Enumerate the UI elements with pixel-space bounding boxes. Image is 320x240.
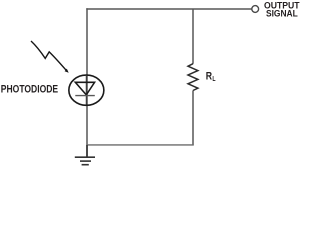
photodiode D1 cathode bar	[75, 95, 95, 97]
light arrow head	[65, 69, 69, 73]
light arrow into photodiode	[31, 41, 66, 70]
svg-text:SIGNAL: SIGNAL	[266, 9, 298, 19]
svg-text:PHOTODIODE: PHOTODIODE	[1, 84, 58, 96]
node junction at top of resistor branch	[192, 9, 194, 64]
wire left vertical (photodiode branch)	[86, 8, 88, 156]
wire bottom horizontal	[86, 144, 193, 146]
ground stub	[86, 145, 88, 157]
svg-text:R: R	[206, 71, 212, 83]
wire top horizontal	[86, 8, 252, 10]
photodiode D1 body (ellipse)	[69, 75, 104, 105]
ground	[75, 156, 95, 158]
photodiode D1 triangle (anode)	[75, 82, 94, 95]
svg-text:L: L	[212, 74, 215, 83]
photodiode D1 internal lead	[86, 76, 88, 105]
wire resistor bottom lead	[192, 91, 194, 146]
resistor RL zigzag	[188, 64, 198, 91]
output terminal	[252, 6, 259, 13]
